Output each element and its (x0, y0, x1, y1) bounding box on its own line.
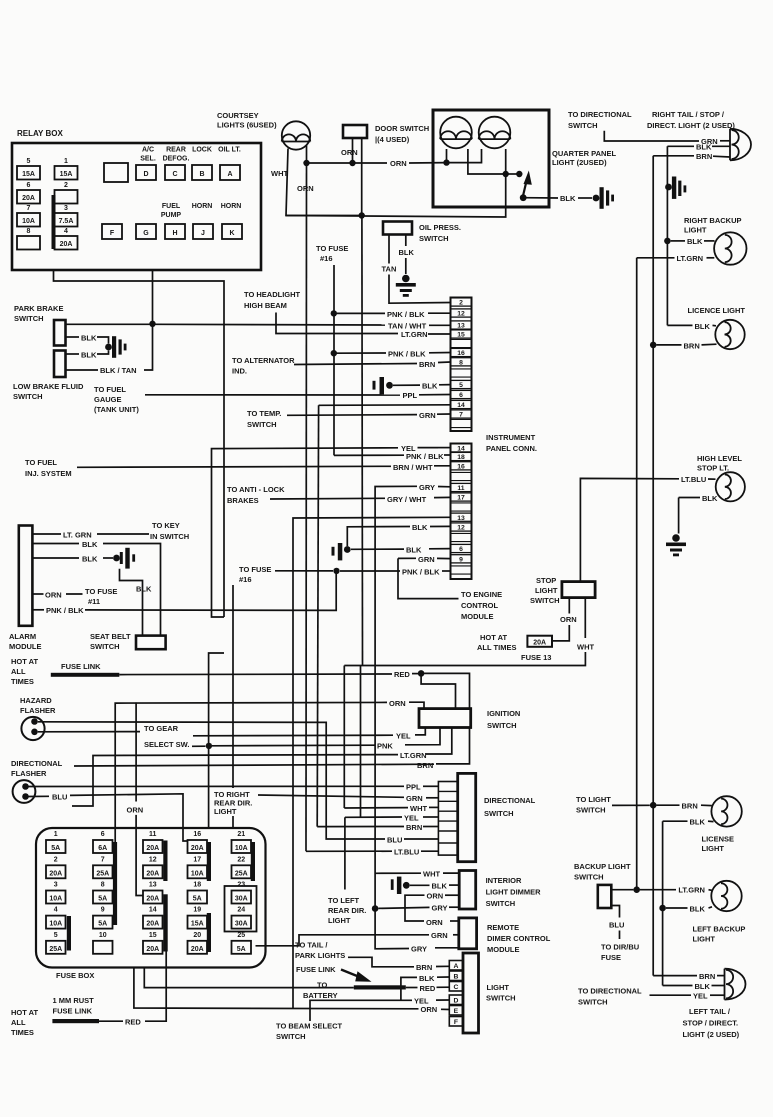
wire PNK/BLK alarm (32, 609, 44, 611)
svg-text:15A: 15A (191, 921, 204, 928)
wire relay box to headlight bus (54, 270, 225, 617)
wire door switch WHT lead (361, 138, 363, 216)
svg-text:PANEL CONN.: PANEL CONN. (486, 444, 537, 453)
svg-text:GRN: GRN (406, 794, 423, 803)
wire GRN right tail (604, 131, 699, 141)
wire LT.GRN bus right (636, 258, 638, 890)
wire hazard upper to BLU directional (38, 722, 385, 839)
wire ORN stop to fuse (568, 598, 570, 614)
svg-text:SWITCH: SWITCH (530, 596, 560, 605)
svg-text:7.5A: 7.5A (59, 218, 74, 225)
svg-text:2: 2 (64, 182, 68, 189)
svg-text:HIGH LEVEL: HIGH LEVEL (697, 454, 742, 463)
wire YEL to ignition (193, 734, 393, 737)
svg-text:QUARTER PANEL: QUARTER PANEL (552, 149, 616, 158)
svg-text:B: B (199, 171, 204, 178)
svg-text:14: 14 (457, 402, 465, 409)
svg-text:HOT AT: HOT AT (11, 1008, 38, 1017)
backup light switch (598, 885, 612, 908)
svg-text:ORN: ORN (341, 148, 358, 157)
svg-text:TO ENGINE: TO ENGINE (461, 590, 502, 599)
svg-text:2: 2 (54, 856, 58, 863)
svg-text:FUSE 13: FUSE 13 (521, 653, 551, 662)
node PNK/BLK 12 (331, 310, 337, 316)
svg-text:7: 7 (101, 856, 105, 863)
svg-text:1: 1 (54, 831, 58, 838)
svg-text:LT. GRN: LT. GRN (63, 531, 92, 540)
svg-text:ORN: ORN (127, 806, 144, 815)
instrument panel connector upper (451, 298, 472, 432)
svg-text:10A: 10A (49, 921, 62, 928)
svg-text:20A: 20A (191, 946, 204, 953)
svg-text:16: 16 (193, 831, 201, 838)
relay slot D (136, 165, 156, 180)
svg-text:YEL: YEL (396, 731, 411, 740)
svg-text:PPL: PPL (406, 783, 421, 792)
wire RED to light switch C (406, 987, 418, 989)
svg-text:ALARM: ALARM (9, 632, 36, 641)
svg-text:1 MM RUST: 1 MM RUST (53, 996, 95, 1005)
svg-text:24: 24 (237, 907, 245, 914)
svg-text:BLK: BLK (702, 494, 718, 503)
svg-text:LT.GRN: LT.GRN (678, 886, 705, 895)
svg-text:9: 9 (101, 907, 105, 914)
svg-text:INJ. SYSTEM: INJ. SYSTEM (25, 469, 72, 478)
wire BLK park brake (66, 336, 80, 338)
wire BLK right tail (667, 145, 694, 147)
svg-text:BLK: BLK (696, 143, 712, 152)
svg-text:INTERIOR: INTERIOR (486, 876, 522, 885)
svg-text:25A: 25A (49, 946, 62, 953)
svg-text:BRAKES: BRAKES (227, 496, 259, 505)
svg-text:PNK / BLK: PNK / BLK (387, 310, 425, 319)
ground oil press (402, 275, 410, 283)
svg-text:9: 9 (459, 556, 463, 563)
wire YEL directional (345, 816, 402, 818)
wire BRN right tail (653, 155, 694, 157)
wire BLK to pin 5 (393, 384, 420, 386)
wire GRY remote (375, 909, 409, 949)
svg-text:TO DIR/BU: TO DIR/BU (601, 943, 639, 952)
quarter panel light box (433, 110, 549, 207)
svg-text:FUSE BOX: FUSE BOX (56, 971, 94, 980)
wire BLK right backup (671, 240, 685, 242)
wire PNK/BLK to pin 18 (334, 454, 404, 456)
svg-text:BLK: BLK (399, 248, 415, 257)
node backup LT.GRN (633, 886, 640, 893)
svg-text:5: 5 (27, 158, 31, 165)
wire YEL to light switch D (310, 1000, 412, 1021)
svg-text:GAUGE: GAUGE (94, 395, 122, 404)
wire BLK left backup (666, 907, 688, 909)
svg-text:BLK: BLK (432, 882, 448, 891)
svg-text:LOW BRAKE FLUID: LOW BRAKE FLUID (13, 382, 84, 391)
svg-text:10A: 10A (235, 845, 248, 852)
svg-text:18: 18 (457, 454, 465, 461)
wire BRN/WHT to pin 16 lower (77, 466, 391, 467)
svg-text:D: D (143, 171, 148, 178)
svg-text:LIGHT: LIGHT (487, 983, 510, 992)
svg-text:5A: 5A (98, 921, 107, 928)
quarter panel bulb 1 (440, 117, 472, 149)
svg-text:YEL: YEL (404, 813, 419, 822)
svg-text:5A: 5A (51, 845, 60, 852)
alarm module (19, 526, 33, 626)
svg-text:WHT: WHT (577, 643, 594, 652)
svg-text:BRN: BRN (682, 802, 698, 811)
remote dimer control module (459, 918, 477, 949)
wire ORN to ignition (115, 702, 387, 842)
svg-text:8: 8 (459, 359, 463, 366)
svg-text:LT.BLU: LT.BLU (394, 848, 419, 857)
svg-text:DOOR SWITCH: DOOR SWITCH (375, 124, 429, 133)
fuse box bus bar col5 (251, 842, 255, 881)
wire bus 360 down (360, 666, 362, 818)
wire ORN courtesy lead (306, 145, 308, 163)
wire RED inner feed (421, 673, 455, 708)
svg-text:PNK / BLK: PNK / BLK (388, 350, 426, 359)
svg-text:C: C (453, 984, 458, 991)
svg-text:LIGHT DIMMER: LIGHT DIMMER (486, 888, 542, 897)
svg-text:DIRECT. LIGHT (2 USED): DIRECT. LIGHT (2 USED) (647, 121, 735, 130)
svg-text:17: 17 (193, 856, 201, 863)
svg-text:20A: 20A (191, 845, 204, 852)
svg-text:HORN: HORN (221, 203, 242, 210)
wire hazard lower (38, 731, 140, 733)
svg-text:STOP: STOP (536, 576, 556, 585)
wire BLK left tail (663, 985, 693, 987)
fusible link bar battery (354, 985, 406, 989)
node BRN licence (650, 342, 657, 349)
high level stop bulb (716, 472, 745, 501)
node door ORN (349, 160, 355, 166)
svg-text:TO TEMP.: TO TEMP. (247, 409, 281, 418)
wire bulb1 right lead (468, 149, 506, 174)
fuse box bus bar col1 (67, 916, 71, 951)
svg-text:10: 10 (99, 932, 107, 939)
svg-text:(TANK UNIT): (TANK UNIT) (94, 405, 139, 414)
svg-text:LIGHT (2USED): LIGHT (2USED) (552, 158, 607, 167)
svg-text:BLU: BLU (609, 921, 624, 930)
svg-text:FUSE LINK: FUSE LINK (61, 662, 101, 671)
wire BRN license (657, 804, 680, 806)
svg-text:REAR: REAR (166, 147, 186, 154)
wire BLK bus left tail (662, 821, 664, 985)
quarter panel bulb 2 (479, 117, 511, 149)
svg-text:BLK: BLK (81, 334, 97, 343)
svg-text:GRY: GRY (419, 483, 435, 492)
wire BRN bus right (652, 156, 654, 976)
svg-text:TO LIGHT: TO LIGHT (576, 795, 611, 804)
svg-text:A: A (227, 171, 232, 178)
svg-text:SWITCH: SWITCH (568, 121, 598, 130)
svg-text:2: 2 (459, 300, 463, 307)
svg-text:RED: RED (125, 1018, 141, 1027)
svg-text:SELECT SW.: SELECT SW. (144, 740, 189, 749)
wire GRY to pin 11 (375, 486, 417, 908)
svg-text:TO FUSE: TO FUSE (316, 244, 348, 253)
svg-text:ORN: ORN (421, 1005, 438, 1014)
svg-text:SWITCH: SWITCH (247, 420, 277, 429)
svg-text:IGNITION: IGNITION (487, 709, 520, 718)
svg-text:SWITCH: SWITCH (486, 899, 516, 908)
wire LT.GRN backup switch (611, 889, 633, 891)
wire TAN to pin 2 (388, 235, 390, 264)
svg-text:11: 11 (457, 485, 464, 492)
ground BLK pins 12/6 (332, 547, 335, 556)
fuse box (36, 828, 266, 968)
node fuse16 (333, 568, 339, 574)
relay box thick bus bar (52, 195, 56, 249)
low brake fluid switch (54, 351, 66, 378)
ground right tail (665, 184, 672, 191)
wire BLU backup switch (611, 906, 619, 918)
svg-text:5A: 5A (193, 896, 202, 903)
wire BLK/TAN (66, 369, 99, 371)
fuse box bus bar col4 lower (207, 913, 211, 952)
svg-text:6: 6 (459, 392, 463, 399)
oil press switch (383, 222, 412, 235)
svg-text:3: 3 (54, 882, 58, 889)
svg-text:ORN: ORN (426, 918, 443, 927)
wire PNK/BLK to connector bottom (340, 570, 400, 572)
svg-text:17: 17 (457, 495, 465, 502)
svg-text:A: A (453, 963, 458, 970)
svg-text:BATTERY: BATTERY (303, 991, 338, 1000)
svg-text:GRY: GRY (432, 904, 448, 913)
wire headlight bus jog (209, 653, 224, 828)
svg-text:B: B (453, 974, 458, 981)
svg-text:TO HEADLIGHT: TO HEADLIGHT (244, 290, 301, 299)
svg-text:WHT: WHT (423, 870, 440, 879)
svg-text:BLK / TAN: BLK / TAN (100, 366, 137, 375)
wire BLK low brake fluid (66, 353, 80, 355)
svg-text:7: 7 (27, 205, 31, 212)
svg-text:E: E (454, 1008, 459, 1015)
svg-text:LICENCE LIGHT: LICENCE LIGHT (688, 306, 746, 315)
svg-text:WHT: WHT (410, 804, 427, 813)
wire BLK licence (667, 324, 692, 326)
svg-text:GRY / WHT: GRY / WHT (387, 495, 427, 504)
svg-text:FUSE: FUSE (601, 953, 621, 962)
wire GRN directional (258, 795, 404, 797)
svg-text:SWITCH: SWITCH (576, 806, 606, 815)
svg-text:6: 6 (101, 831, 105, 838)
svg-text:11: 11 (149, 831, 157, 838)
svg-text:DEFOG.: DEFOG. (163, 156, 190, 163)
svg-text:PPL: PPL (403, 391, 418, 400)
svg-text:IN SWITCH: IN SWITCH (150, 532, 189, 541)
ground quarter panel (593, 195, 600, 202)
svg-text:G: G (143, 230, 149, 237)
wire bulb2 right lead (505, 149, 507, 174)
svg-text:LIGHT: LIGHT (214, 807, 237, 816)
svg-text:D: D (453, 998, 458, 1005)
svg-text:TIMES: TIMES (11, 677, 34, 686)
relay slot H (165, 224, 185, 239)
svg-text:FUEL: FUEL (162, 203, 181, 210)
wire WHT dimmer (375, 872, 422, 874)
svg-text:OIL LT.: OIL LT. (218, 147, 241, 154)
svg-text:TO FUSE: TO FUSE (239, 565, 271, 574)
svg-text:A/C: A/C (142, 147, 154, 154)
svg-text:18: 18 (193, 882, 201, 889)
door switch (343, 125, 367, 138)
svg-text:10A: 10A (191, 870, 204, 877)
node door WHT (359, 212, 365, 218)
wire BLK to pin 12 (347, 527, 410, 547)
svg-text:7: 7 (459, 412, 463, 419)
svg-text:BLK: BLK (419, 974, 435, 983)
svg-text:HORN: HORN (192, 203, 213, 210)
svg-text:WHT: WHT (271, 169, 288, 178)
svg-text:6: 6 (27, 182, 31, 189)
svg-text:GRN: GRN (431, 931, 448, 940)
fuse box bus bar col3 upper (163, 841, 167, 882)
svg-text:HOT AT: HOT AT (11, 657, 38, 666)
svg-text:TO KEY: TO KEY (152, 521, 180, 530)
wire LT.BLU directional (306, 850, 392, 852)
svg-text:TO FUSE: TO FUSE (85, 587, 117, 596)
wire door switch ORN lead (352, 138, 354, 163)
wire BLK high level (679, 497, 700, 499)
svg-text:#16: #16 (239, 575, 252, 584)
svg-text:BLK: BLK (690, 904, 706, 913)
right backup bulb (714, 232, 746, 264)
svg-text:TO FUEL: TO FUEL (94, 385, 126, 394)
wire to light switch BRN (612, 804, 650, 806)
wire pin 13 bus (293, 517, 451, 1008)
svg-text:TO DIRECTIONAL: TO DIRECTIONAL (568, 110, 632, 119)
svg-text:J: J (201, 230, 205, 237)
svg-text:BRN: BRN (699, 972, 715, 981)
wire ORN to fuse 13 (135, 702, 137, 801)
svg-text:BLK: BLK (412, 523, 428, 532)
svg-text:REAR DIR.: REAR DIR. (328, 906, 366, 915)
svg-text:20A: 20A (22, 195, 35, 202)
right tail light bulb (730, 129, 751, 161)
svg-text:LIGHT: LIGHT (684, 226, 707, 235)
svg-text:HAZARD: HAZARD (20, 696, 52, 705)
svg-text:TO LEFT: TO LEFT (328, 896, 360, 905)
wire PNK/BLK fuse16 bus (333, 265, 335, 455)
svg-text:LEFT BACKUP: LEFT BACKUP (693, 925, 746, 934)
svg-text:SEL.: SEL. (140, 156, 156, 163)
node BLK left backup (659, 905, 666, 912)
wire GRN remote (256, 935, 430, 946)
svg-text:25A: 25A (235, 870, 248, 877)
svg-text:ALL: ALL (11, 667, 26, 676)
wire ORN alarm (32, 593, 43, 595)
svg-text:PUMP: PUMP (161, 212, 182, 219)
svg-text:5A: 5A (237, 946, 246, 953)
license light bulb (711, 796, 741, 826)
svg-text:4: 4 (54, 907, 58, 914)
svg-text:ORN: ORN (427, 892, 444, 901)
wire BLK quarter panel (523, 197, 558, 199)
svg-text:20A: 20A (146, 845, 159, 852)
wire WHT up into box (286, 174, 506, 217)
svg-text:BLK: BLK (560, 194, 576, 203)
fusible link bar bottom left (52, 1019, 99, 1023)
svg-text:13: 13 (149, 882, 157, 889)
svg-text:REMOTE: REMOTE (487, 923, 519, 932)
svg-text:ORN: ORN (390, 159, 407, 168)
wire ORN to bulb2 left lead (447, 149, 482, 163)
fuse link arrow (341, 970, 362, 979)
svg-text:K: K (229, 230, 234, 237)
svg-text:TAN / WHT: TAN / WHT (388, 321, 427, 330)
node PNK/BLK 16 (331, 350, 337, 356)
node courtesy ORN (303, 160, 309, 166)
svg-text:LIGHT: LIGHT (328, 916, 351, 925)
relay slot G (136, 224, 156, 239)
wire relay box down to park-brake node (152, 270, 154, 324)
svg-text:LT.BLU: LT.BLU (681, 475, 706, 484)
wire ORN dimmer (405, 895, 425, 921)
svg-text:LIGHT: LIGHT (702, 844, 725, 853)
svg-text:BLK: BLK (422, 382, 438, 391)
svg-text:5A: 5A (98, 896, 107, 903)
wire YEL left tail (650, 994, 692, 996)
directional switch pin cells (438, 782, 457, 856)
svg-text:ALL TIMES: ALL TIMES (477, 643, 516, 652)
svg-text:ORN: ORN (297, 184, 314, 193)
svg-text:BLK: BLK (136, 585, 152, 594)
wire ORN line to quarter panel (307, 162, 388, 164)
svg-text:SWITCH: SWITCH (419, 234, 449, 243)
svg-text:23: 23 (237, 882, 245, 889)
svg-text:RED: RED (420, 984, 436, 993)
svg-text:SWITCH: SWITCH (574, 873, 604, 882)
svg-text:20A: 20A (146, 946, 159, 953)
svg-text:SWITCH: SWITCH (484, 809, 514, 818)
svg-text:14: 14 (149, 907, 157, 914)
svg-text:BLK: BLK (690, 818, 706, 827)
svg-text:TO ALTERNATOR: TO ALTERNATOR (232, 356, 295, 365)
svg-text:25A: 25A (96, 870, 109, 877)
wire pin14 bus to BRN directional (317, 405, 318, 826)
fuse 13 20A (527, 636, 552, 647)
svg-text:15A: 15A (22, 171, 35, 178)
node switch bottom (520, 194, 527, 201)
park brake switch (54, 320, 66, 346)
wire BRN to light switch A (348, 957, 414, 967)
svg-text:YEL: YEL (401, 444, 416, 453)
svg-text:20A: 20A (146, 870, 159, 877)
svg-text:BLK: BLK (81, 351, 97, 360)
svg-text:TO GEAR: TO GEAR (144, 724, 179, 733)
svg-text:6A: 6A (98, 845, 107, 852)
node gear select (206, 743, 212, 749)
svg-text:10A: 10A (22, 218, 35, 225)
svg-text:20A: 20A (146, 896, 159, 903)
svg-text:RIGHT BACKUP: RIGHT BACKUP (684, 216, 742, 225)
svg-text:INSTRUMENT: INSTRUMENT (486, 433, 536, 442)
node GRY bus (372, 905, 379, 912)
node BLK backup (664, 238, 671, 245)
svg-text:PNK / BLK: PNK / BLK (46, 606, 84, 615)
svg-text:LICENSE: LICENSE (702, 835, 735, 844)
node light switch BRN (650, 802, 657, 809)
svg-text:FUSE LINK: FUSE LINK (53, 1007, 93, 1016)
svg-text:RIGHT TAIL / STOP /: RIGHT TAIL / STOP / (652, 110, 725, 119)
svg-text:SEAT BELT: SEAT BELT (90, 632, 131, 641)
svg-text:FLASHER: FLASHER (20, 706, 56, 715)
relay box (12, 143, 261, 270)
svg-text:10A: 10A (49, 896, 62, 903)
svg-text:MODULE: MODULE (487, 945, 520, 954)
